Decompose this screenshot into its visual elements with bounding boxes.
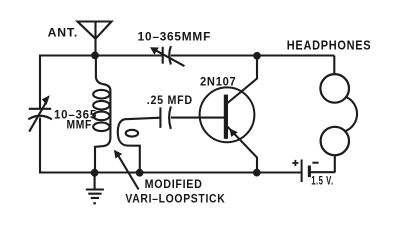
svg-text:VARI–LOOPSTICK: VARI–LOOPSTICK bbox=[125, 192, 225, 206]
svg-text:HEADPHONES: HEADPHONES bbox=[287, 39, 372, 53]
svg-text:10–365MMF: 10–365MMF bbox=[138, 30, 212, 44]
svg-text:MMF: MMF bbox=[67, 118, 93, 132]
svg-text:1.5 V.: 1.5 V. bbox=[311, 173, 334, 187]
svg-text:2N107: 2N107 bbox=[200, 75, 237, 89]
svg-text:.25 MFD: .25 MFD bbox=[147, 93, 193, 107]
svg-text:MODIFIED: MODIFIED bbox=[145, 177, 203, 191]
svg-text:ANT.: ANT. bbox=[48, 25, 79, 39]
